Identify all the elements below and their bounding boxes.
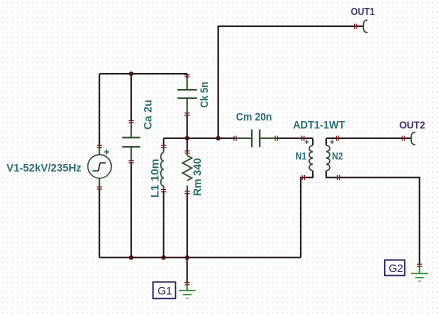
node bottom rail / Ca junction xyxy=(129,255,134,260)
wire Cm to N1 xyxy=(260,137,277,139)
pin marker N2 bottom pin xyxy=(337,175,339,180)
pin marker Cm left pin xyxy=(234,136,236,141)
wire OUT1 branch xyxy=(218,26,363,138)
G2 label box xyxy=(385,260,405,276)
wire mid rail xyxy=(164,137,235,139)
svg-text:Rm 340: Rm 340 xyxy=(192,158,204,196)
pin marker Ck bottom pin xyxy=(185,113,190,115)
pin marker N1 top pin xyxy=(302,136,304,141)
pin marker Ca bottom pin xyxy=(129,161,134,163)
transformer winding N1 xyxy=(309,145,313,170)
wire N1 top pin xyxy=(312,138,314,145)
svg-text:+: + xyxy=(104,148,110,159)
svg-text:OUT1: OUT1 xyxy=(351,6,375,18)
wire bottom rail xyxy=(99,257,300,259)
svg-text:+: + xyxy=(304,137,309,146)
node top rail / Ca junction xyxy=(129,72,134,77)
svg-text:G2: G2 xyxy=(389,263,404,275)
pin marker V1 plus pin xyxy=(97,145,102,147)
wire L1 bottom xyxy=(163,186,165,191)
wire N2 top pin xyxy=(325,138,327,145)
pin marker G2 ground pin xyxy=(417,264,422,266)
pin marker G1 ground pin xyxy=(185,283,190,285)
capacitor Ca xyxy=(122,138,140,147)
svg-text:Cm 20n: Cm 20n xyxy=(236,112,272,124)
wire L1 top xyxy=(163,138,165,146)
G1 label box xyxy=(153,282,176,299)
capacitor Cm xyxy=(252,130,260,148)
svg-text:Ca 2u: Ca 2u xyxy=(143,100,155,130)
pin marker N2 top pin xyxy=(337,136,339,141)
pin marker L1 top pin xyxy=(161,145,166,147)
wire G1 drop xyxy=(186,258,188,284)
voltage source V1 xyxy=(88,155,112,179)
svg-text:L1 10m: L1 10m xyxy=(150,159,162,198)
svg-text:V1-52kV/235Hz: V1-52kV/235Hz xyxy=(7,162,82,174)
wire N2 top to OUT2 xyxy=(326,137,411,139)
pin marker Rm bottom pin xyxy=(185,191,190,193)
wire Rm bottom xyxy=(186,186,188,193)
svg-text:+: + xyxy=(330,137,335,146)
wire top rail xyxy=(99,73,187,75)
pin marker V1 minus pin xyxy=(97,187,102,189)
wire Rm top xyxy=(186,138,188,152)
resistor Rm xyxy=(183,156,192,181)
ground G2 symbol xyxy=(411,274,428,282)
svg-text:N1: N1 xyxy=(296,151,307,163)
wire Ca top xyxy=(130,74,132,122)
port OUT2 xyxy=(411,132,415,145)
pin marker N1 bottom pin xyxy=(302,175,304,180)
transformer winding N2 xyxy=(326,145,330,170)
pin marker OUT1 port pin xyxy=(355,24,357,29)
wire Ck top xyxy=(186,74,188,77)
node bottom rail / L1 junction xyxy=(161,255,166,260)
svg-text:Ck 5n: Ck 5n xyxy=(199,82,211,108)
wire Ca bottom xyxy=(130,147,132,162)
ground G1 symbol xyxy=(179,291,196,299)
inductor L1 xyxy=(161,153,164,187)
svg-text:G1: G1 xyxy=(158,286,173,298)
pin marker Ck top pin xyxy=(185,75,190,77)
wire V1 bottom branch xyxy=(98,178,100,188)
wire N1 bottom return xyxy=(301,171,313,258)
pin marker OUT2 port pin xyxy=(402,136,404,141)
node mid rail / Ck-Rm junction xyxy=(185,136,190,141)
pin marker L1 bottom pin xyxy=(161,190,166,192)
svg-text:N2: N2 xyxy=(332,151,343,163)
wire N2 bottom to G2 xyxy=(326,171,419,266)
wire V1 top branch xyxy=(98,74,100,147)
capacitor Ck xyxy=(177,90,197,98)
pin marker Cm right pin xyxy=(275,136,277,141)
pin marker Rm top pin xyxy=(185,151,190,153)
svg-text:ADT1-1WT: ADT1-1WT xyxy=(293,120,345,132)
node mid rail / OUT1 junction xyxy=(216,136,221,141)
port OUT1 xyxy=(363,20,367,33)
svg-text:OUT2: OUT2 xyxy=(399,119,425,131)
pin marker Ca top pin xyxy=(129,121,134,123)
wire Ck bottom xyxy=(186,98,188,114)
node bottom rail / G1 junction xyxy=(185,255,190,260)
